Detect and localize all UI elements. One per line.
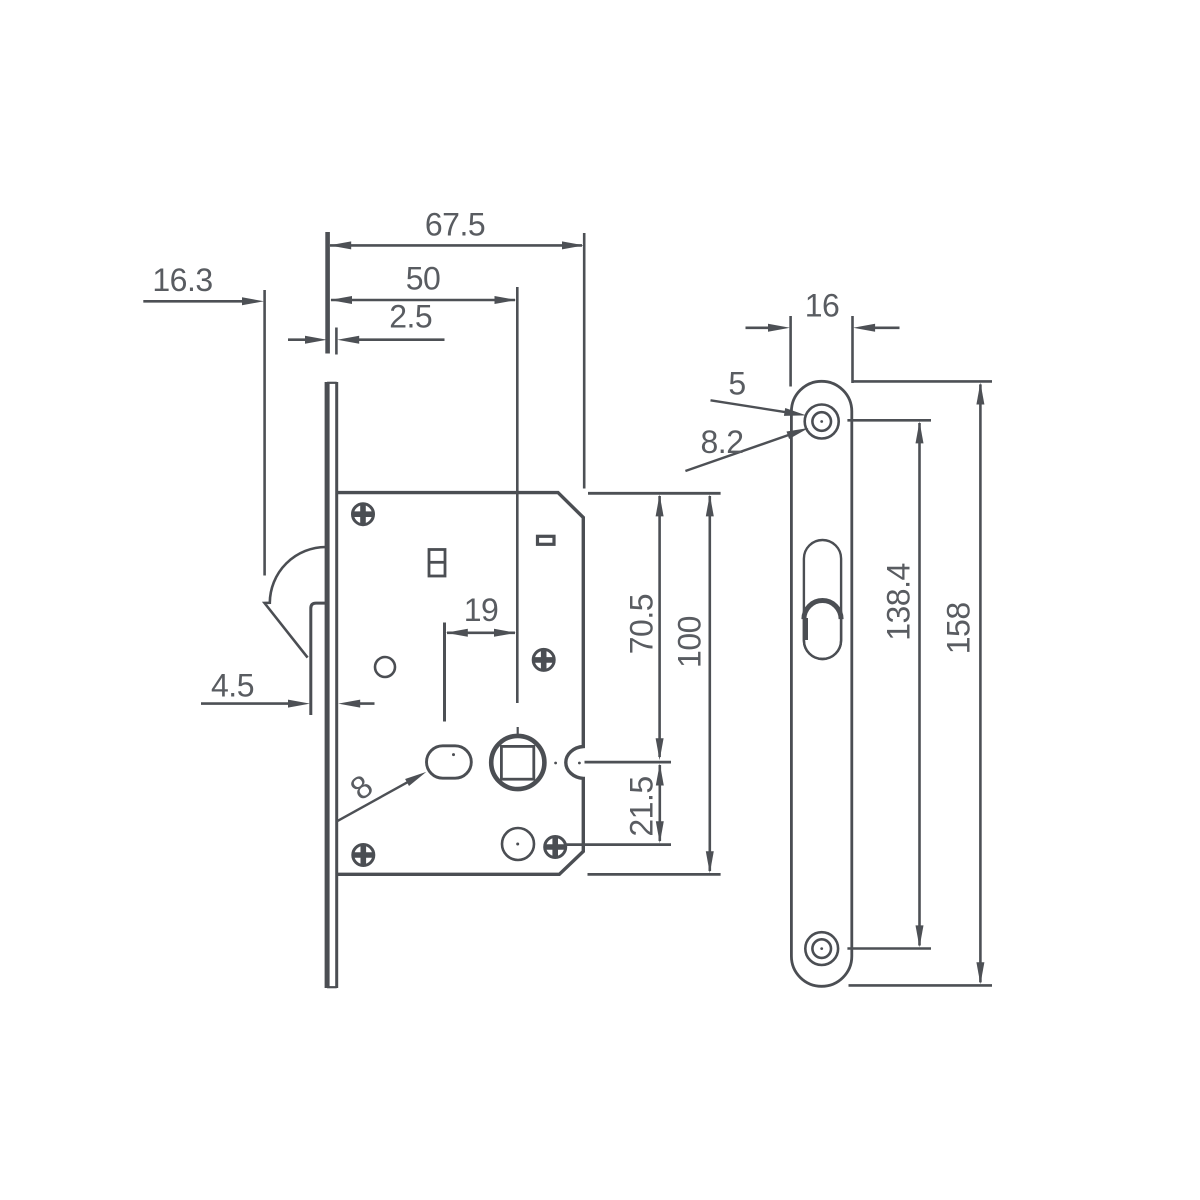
svg-text:4.5: 4.5 — [211, 668, 254, 704]
svg-text:16: 16 — [805, 288, 840, 324]
svg-text:8.2: 8.2 — [701, 424, 744, 460]
svg-text:19: 19 — [464, 592, 499, 628]
svg-text:70.5: 70.5 — [624, 594, 660, 654]
svg-text:5: 5 — [728, 366, 745, 402]
svg-text:2.5: 2.5 — [389, 299, 432, 335]
svg-text:16.3: 16.3 — [152, 262, 212, 298]
svg-text:50: 50 — [406, 261, 441, 297]
svg-text:138.4: 138.4 — [881, 563, 917, 641]
svg-text:21.5: 21.5 — [624, 776, 660, 836]
svg-text:158: 158 — [941, 602, 977, 654]
svg-text:100: 100 — [672, 616, 708, 668]
svg-text:67.5: 67.5 — [425, 207, 485, 243]
